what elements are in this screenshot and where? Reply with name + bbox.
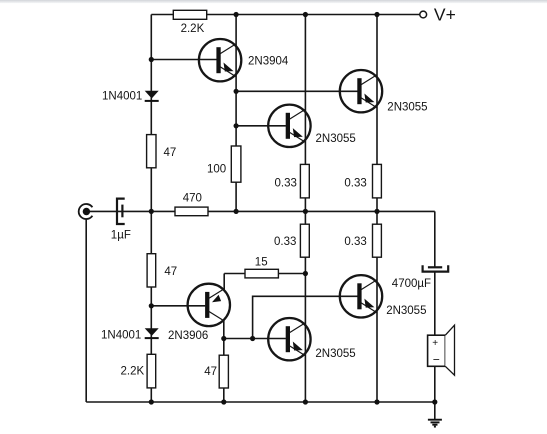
wire 15-ohm branch — [224, 273, 305, 275]
wire input column (x=86) — [85, 219, 87, 403]
node mid rail / Q3 emitter — [374, 209, 379, 214]
resistor 15 — [245, 269, 278, 278]
svg-text:0.33: 0.33 — [344, 177, 366, 189]
node mid rail / input — [149, 209, 154, 214]
wire V+ top rail — [151, 14, 419, 16]
ground — [428, 420, 442, 427]
svg-text:+: + — [432, 338, 438, 349]
transistor Q5 2N3055 bottom center — [268, 318, 310, 360]
resistor 47 bottom center — [219, 355, 228, 388]
resistor 47 mid left — [147, 254, 156, 287]
node top rail / Q2 column — [303, 12, 308, 17]
node mid rail / Q2 emitter — [303, 209, 308, 214]
resistor 470 — [175, 207, 208, 216]
node Q1 base — [149, 57, 154, 62]
resistor 0.33 upper right — [373, 164, 382, 198]
resistor 2.2K bottom — [147, 354, 156, 388]
wire Q6 base L-path — [253, 296, 358, 338]
svg-text:47: 47 — [164, 147, 177, 159]
speaker LS1 — [428, 325, 455, 375]
diode D2 1N4001 bottom — [145, 328, 159, 339]
transistor Q2 2N3055 center — [268, 105, 310, 147]
node bottom rail / ground — [432, 399, 437, 404]
node bottom rail / column E — [374, 399, 379, 404]
wire Q1 base — [151, 59, 216, 61]
transistor Q3 2N3055 top right — [340, 70, 382, 112]
svg-text:2N3904: 2N3904 — [248, 56, 289, 68]
svg-text:470: 470 — [183, 193, 202, 205]
svg-text:0.33: 0.33 — [344, 236, 366, 248]
node Q4 base — [149, 303, 154, 308]
svg-text:−: − — [433, 353, 440, 367]
wire bottom rail — [86, 401, 435, 403]
svg-text:V+: V+ — [434, 4, 456, 24]
node Q4 emitter — [221, 336, 226, 341]
wire Q4 base — [151, 305, 205, 307]
wire ground drop — [434, 402, 436, 419]
svg-text:2N3055: 2N3055 — [315, 348, 355, 360]
capacitor C2 4700uF — [423, 265, 449, 271]
svg-text:1N4001: 1N4001 — [102, 90, 142, 102]
svg-text:100: 100 — [207, 163, 226, 175]
transistor Q4 2N3906 — [188, 284, 230, 326]
wire output column speaker to bottom rail — [434, 366, 436, 402]
wire Q2 base — [236, 125, 286, 127]
node Q1 emitter / Q3 base — [234, 89, 239, 94]
svg-text:2.2K: 2.2K — [121, 366, 145, 378]
svg-text:15: 15 — [255, 256, 268, 268]
capacitor C1 1uF — [117, 199, 125, 224]
svg-text:47: 47 — [204, 366, 217, 378]
wire column E (x=377) top rail to bottom rail — [376, 15, 378, 403]
wire Q4 collector riser — [223, 274, 225, 292]
svg-text:4700µF: 4700µF — [392, 278, 431, 290]
node Q2 base — [234, 123, 239, 128]
wire output column (x=435) mid rail to cap — [434, 211, 436, 266]
node 15-ohm / column D — [303, 271, 308, 276]
wire column C (x=236) top rail to mid rail — [235, 15, 237, 212]
decorative top bar — [0, 0, 547, 3]
node mid rail / 470 — [234, 209, 239, 214]
svg-text:47: 47 — [164, 266, 177, 278]
V+ terminal — [420, 11, 427, 18]
svg-text:1µF: 1µF — [111, 229, 131, 241]
node bottom rail / 2.2K — [149, 399, 154, 404]
resistor 0.33 lower left — [300, 224, 309, 257]
resistor 0.33 upper left — [300, 164, 309, 198]
wire mid rail — [89, 210, 435, 212]
resistor 2.2K top — [173, 10, 206, 19]
wire Q4 emitter drop — [223, 320, 225, 402]
svg-text:2N3055: 2N3055 — [387, 102, 427, 114]
wire output column cap to speaker — [434, 272, 436, 335]
wire Q5 base — [224, 338, 286, 340]
node top rail / Q3 column — [374, 12, 379, 17]
resistor 100 — [231, 146, 241, 182]
wire Q3 base — [236, 90, 357, 92]
svg-text:1N4001: 1N4001 — [101, 329, 141, 341]
transistor Q6 2N3055 lower right — [340, 275, 382, 317]
node bottom rail / column D — [303, 399, 308, 404]
diode D1 1N4001 top — [145, 91, 159, 102]
node Q5 base / Q6 base branch — [250, 336, 255, 341]
svg-text:2N3906: 2N3906 — [168, 330, 208, 342]
input connector J1 — [79, 204, 93, 219]
svg-text:0.33: 0.33 — [275, 177, 297, 189]
transistor Q1 2N3904 — [199, 39, 241, 81]
node top rail / 2N3904 collector — [234, 12, 239, 17]
svg-text:0.33: 0.33 — [274, 236, 296, 248]
wire left column — [150, 15, 152, 403]
wire column D (x=305) top rail to bottom rail — [304, 15, 306, 403]
resistor 47 upper left — [147, 135, 156, 168]
svg-text:2N3055: 2N3055 — [386, 305, 426, 317]
node bottom rail / 47 — [221, 399, 226, 404]
resistor 0.33 lower right — [373, 224, 382, 257]
svg-text:2.2K: 2.2K — [181, 23, 205, 35]
svg-text:2N3055: 2N3055 — [316, 133, 356, 145]
